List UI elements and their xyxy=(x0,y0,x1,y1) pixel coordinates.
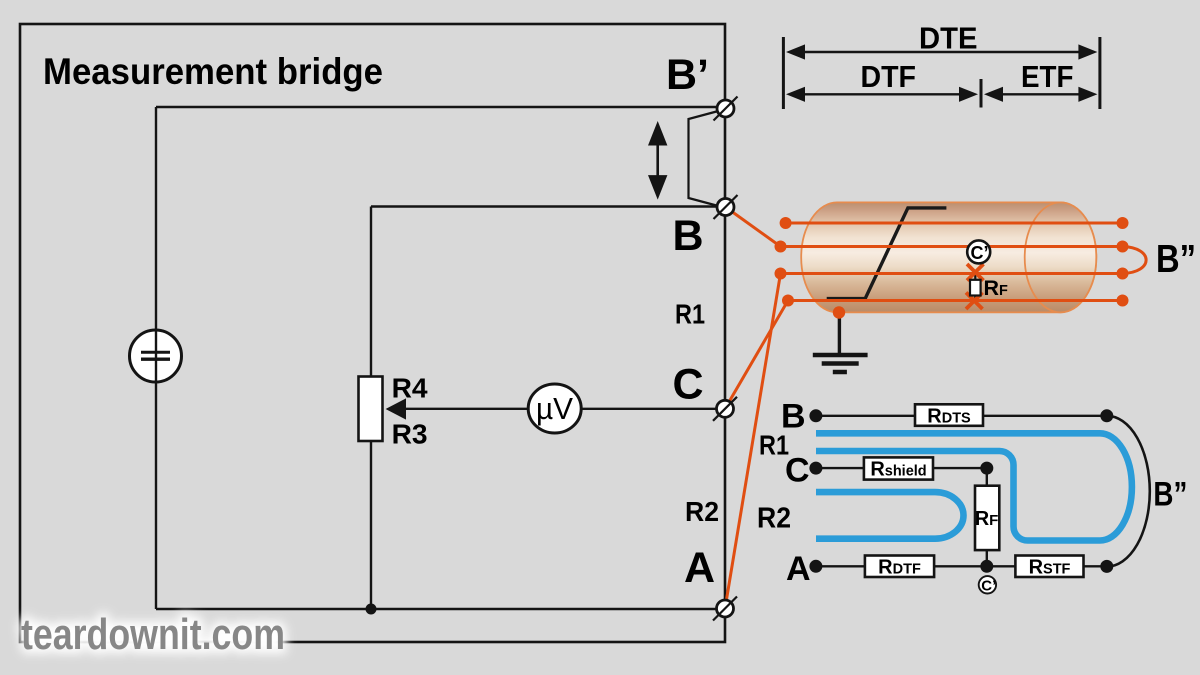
svg-text:R1: R1 xyxy=(675,299,705,330)
svg-text:A: A xyxy=(786,550,811,588)
svg-text:DTF: DTF xyxy=(861,59,917,94)
svg-text:B”: B” xyxy=(1153,475,1187,513)
svg-text:ETF: ETF xyxy=(1021,59,1074,94)
svg-text:µV: µV xyxy=(536,391,573,426)
svg-text:R2: R2 xyxy=(685,496,719,527)
svg-text:C’: C’ xyxy=(981,577,996,594)
svg-text:R3: R3 xyxy=(392,419,428,450)
svg-text:B”: B” xyxy=(1156,238,1196,281)
svg-text:RF: RF xyxy=(975,508,999,530)
svg-text:R4: R4 xyxy=(392,373,428,404)
svg-text:C’: C’ xyxy=(971,243,989,263)
svg-text:teardownit.com: teardownit.com xyxy=(21,610,285,659)
svg-text:B: B xyxy=(673,212,704,260)
svg-text:C: C xyxy=(673,361,704,409)
svg-text:DTE: DTE xyxy=(919,21,978,56)
svg-text:R1: R1 xyxy=(759,430,789,461)
svg-text:Measurement bridge: Measurement bridge xyxy=(43,51,383,92)
svg-text:B’: B’ xyxy=(666,51,709,99)
svg-text:R2: R2 xyxy=(757,503,791,535)
svg-text:A: A xyxy=(684,544,715,592)
